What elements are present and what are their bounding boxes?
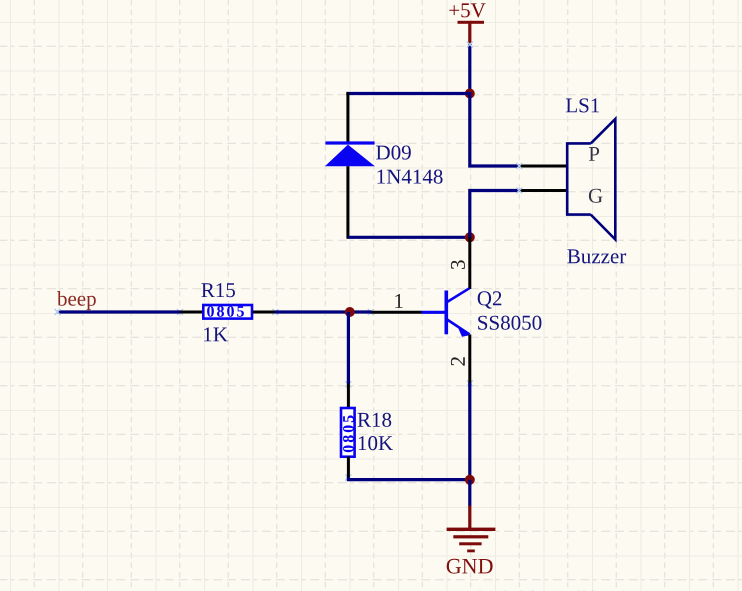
resistor R18 pin lead bottom (347, 457, 350, 479)
transistor Q2 base pin lead (370, 311, 421, 314)
pin hotspot cross base pin (368, 309, 374, 315)
pin hotspot cross wire start (55, 309, 61, 315)
label R15 (201, 283, 235, 297)
ground (447, 506, 496, 574)
wire buzzer P branch (470, 92, 520, 166)
pin hotspot cross emitter wire (467, 380, 473, 386)
pin hotspot cross R15 right (272, 309, 278, 315)
junction node base (345, 307, 355, 317)
buzzer LS1 body (567, 119, 615, 240)
pin hotspot cross R18 bottom (345, 475, 351, 481)
pin number 1 (395, 294, 402, 308)
wire R15 to base (275, 310, 372, 313)
pin hotspot cross G (516, 188, 522, 194)
buzzer LS1 pin G lead (518, 189, 566, 192)
resistor R18 body (341, 408, 355, 457)
wire top horizontal to diode (346, 92, 470, 95)
pin number 3 (451, 260, 465, 269)
label LS1 (566, 98, 599, 112)
pin number 2 (451, 357, 465, 365)
wire base junction down (347, 312, 350, 385)
wire beep to R15 (58, 310, 182, 313)
transistor Q2 pin 2 lead (468, 335, 471, 384)
power +5V (449, 3, 485, 45)
label 10K (359, 436, 393, 450)
transistor Q2 symbol (422, 288, 471, 337)
label R18 (358, 413, 392, 427)
wire buzzer G branch (470, 191, 520, 239)
diode D09 (325, 92, 375, 239)
pin name G (589, 189, 603, 203)
resistor R15 body (203, 305, 252, 319)
resistor R15 pin lead right (253, 311, 276, 314)
junction node VCC (465, 89, 475, 99)
label 1N4148 (378, 170, 443, 184)
label D09 (376, 145, 411, 159)
label 1K (204, 327, 228, 341)
junction node collector (465, 232, 475, 242)
label Buzzer (567, 249, 626, 263)
pin name P (589, 147, 599, 161)
pin hotspot cross R18 top (345, 381, 351, 387)
wire bottom horizontal from diode (348, 236, 470, 239)
net label beep (57, 291, 96, 310)
transistor Q2 pin 3 lead (468, 237, 471, 289)
buzzer LS1 pin P lead (518, 165, 566, 168)
label SS8050 (478, 316, 541, 330)
resistor R18 pin lead top (347, 384, 350, 409)
pin hotspot cross power stem (467, 42, 473, 48)
junction node emitter-gnd (465, 475, 475, 485)
wire +5V vertical (468, 44, 471, 95)
wire junction to gnd stem (468, 480, 471, 507)
resistor R15 pin lead left (180, 311, 203, 314)
wire R18 bottom to ground rail (348, 477, 469, 480)
wire emitter to ground rail (468, 383, 471, 482)
pin hotspot cross P (516, 163, 522, 169)
pin hotspot cross R15 left (177, 309, 183, 315)
label Q2 (478, 291, 502, 308)
